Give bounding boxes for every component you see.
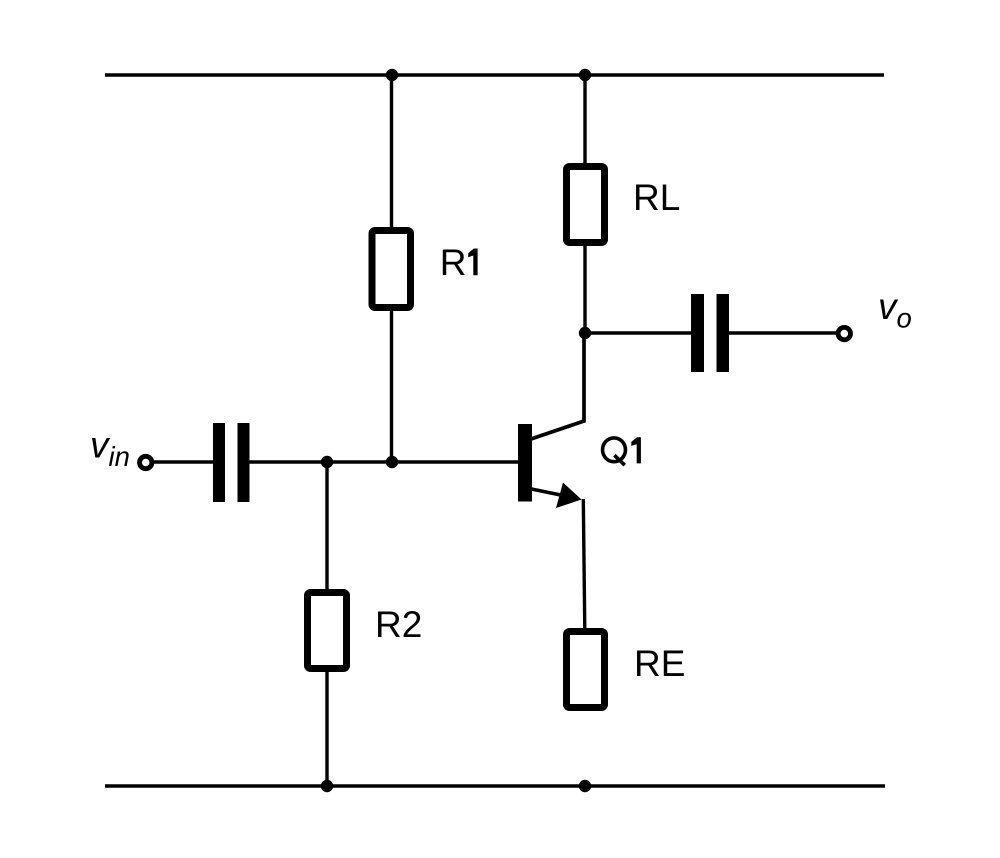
wire R2 branch: [325, 462, 328, 786]
wire collector vertical: [531, 333, 584, 439]
wire RL branch: [583, 75, 586, 333]
node R1 top rail junction: [386, 69, 398, 81]
wire R1 branch: [390, 75, 393, 462]
terminal vin: [140, 456, 152, 468]
svg-text:R: R: [440, 242, 467, 283]
node R2 base junction: [321, 456, 333, 468]
node R2 bottom rail junction: [321, 780, 333, 792]
wire bottom rail ground: [105, 784, 885, 787]
resistor RL: [567, 167, 605, 243]
wire input: [154, 460, 214, 463]
svg-text:RL: RL: [633, 177, 680, 218]
transistor Q1: [518, 424, 582, 508]
wire base: [250, 460, 519, 463]
wire emitter: [583, 499, 585, 631]
wire output left: [585, 331, 692, 334]
capacitor Cin: [213, 423, 250, 502]
node collector output junction: [579, 327, 591, 339]
node RE bottom rail junction: [579, 780, 591, 792]
resistor RE: [567, 632, 605, 708]
resistor R1: [372, 231, 411, 308]
resistor R2: [308, 593, 347, 669]
svg-text:vin: vin: [90, 425, 130, 473]
label Q1: [603, 437, 641, 465]
wire top rail VCC: [105, 73, 884, 76]
node R1 base junction: [386, 456, 398, 468]
label R1: [440, 242, 478, 283]
node RL top rail junction: [579, 69, 591, 81]
terminal vo: [838, 327, 850, 339]
svg-text:vo: vo: [878, 286, 912, 334]
svg-text:RE: RE: [634, 643, 685, 684]
wire output right: [729, 331, 836, 334]
svg-text:R2: R2: [375, 604, 422, 645]
capacitor Cout: [691, 294, 729, 372]
